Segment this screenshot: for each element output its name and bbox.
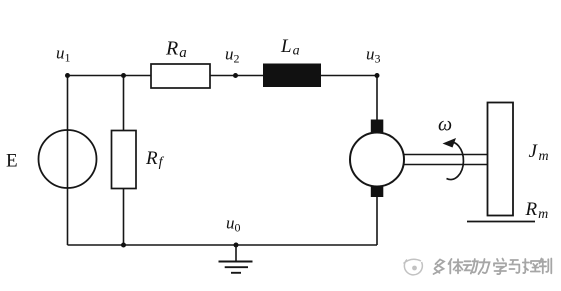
inductor La xyxy=(263,64,321,88)
watermark text yu xyxy=(510,260,520,273)
label u2 xyxy=(225,45,240,66)
label Ra xyxy=(165,38,187,62)
label E xyxy=(6,151,18,172)
label u3 xyxy=(366,45,381,66)
watermark text duo xyxy=(434,260,445,275)
watermark text dong xyxy=(464,259,478,274)
node u2 xyxy=(233,73,238,78)
motor brush bottom xyxy=(371,186,384,197)
node u3 xyxy=(375,73,380,78)
svg-text:E: E xyxy=(6,151,18,172)
resistor Rf xyxy=(112,131,137,189)
voltage source E circle xyxy=(39,130,97,188)
label u1 xyxy=(56,44,71,65)
wire motor branch xyxy=(376,76,378,246)
label Rm xyxy=(525,199,549,222)
node junction Rf bottom xyxy=(121,243,126,248)
resistor Ra xyxy=(151,64,210,88)
wire Rf branch xyxy=(123,76,125,246)
watermark logo xyxy=(404,259,423,275)
node u1 xyxy=(65,73,70,78)
watermark text ti xyxy=(449,259,463,274)
friction Rm ground line xyxy=(467,221,535,223)
svg-text:ω: ω xyxy=(438,114,452,136)
ground xyxy=(219,245,253,273)
label La xyxy=(280,36,300,59)
watermark text zhi xyxy=(540,259,552,274)
node u0 xyxy=(234,243,239,248)
watermark text xue xyxy=(494,259,506,275)
label u0 xyxy=(226,214,241,235)
wire left branch (through source E) xyxy=(67,76,69,246)
watermark text li xyxy=(479,259,490,274)
shaft xyxy=(404,155,488,165)
label omega xyxy=(438,114,452,136)
label Rf xyxy=(145,148,165,170)
rotation arrow omega xyxy=(443,138,464,180)
watermark text kong xyxy=(523,259,540,273)
node junction Rf top xyxy=(121,73,126,78)
motor M circle xyxy=(350,133,404,187)
inertia Jm rectangle xyxy=(488,103,514,216)
label Jm xyxy=(529,141,549,164)
motor brush top xyxy=(371,120,384,133)
wire bottom rail xyxy=(68,244,378,246)
wire top rail u1 to u3 xyxy=(68,75,378,77)
